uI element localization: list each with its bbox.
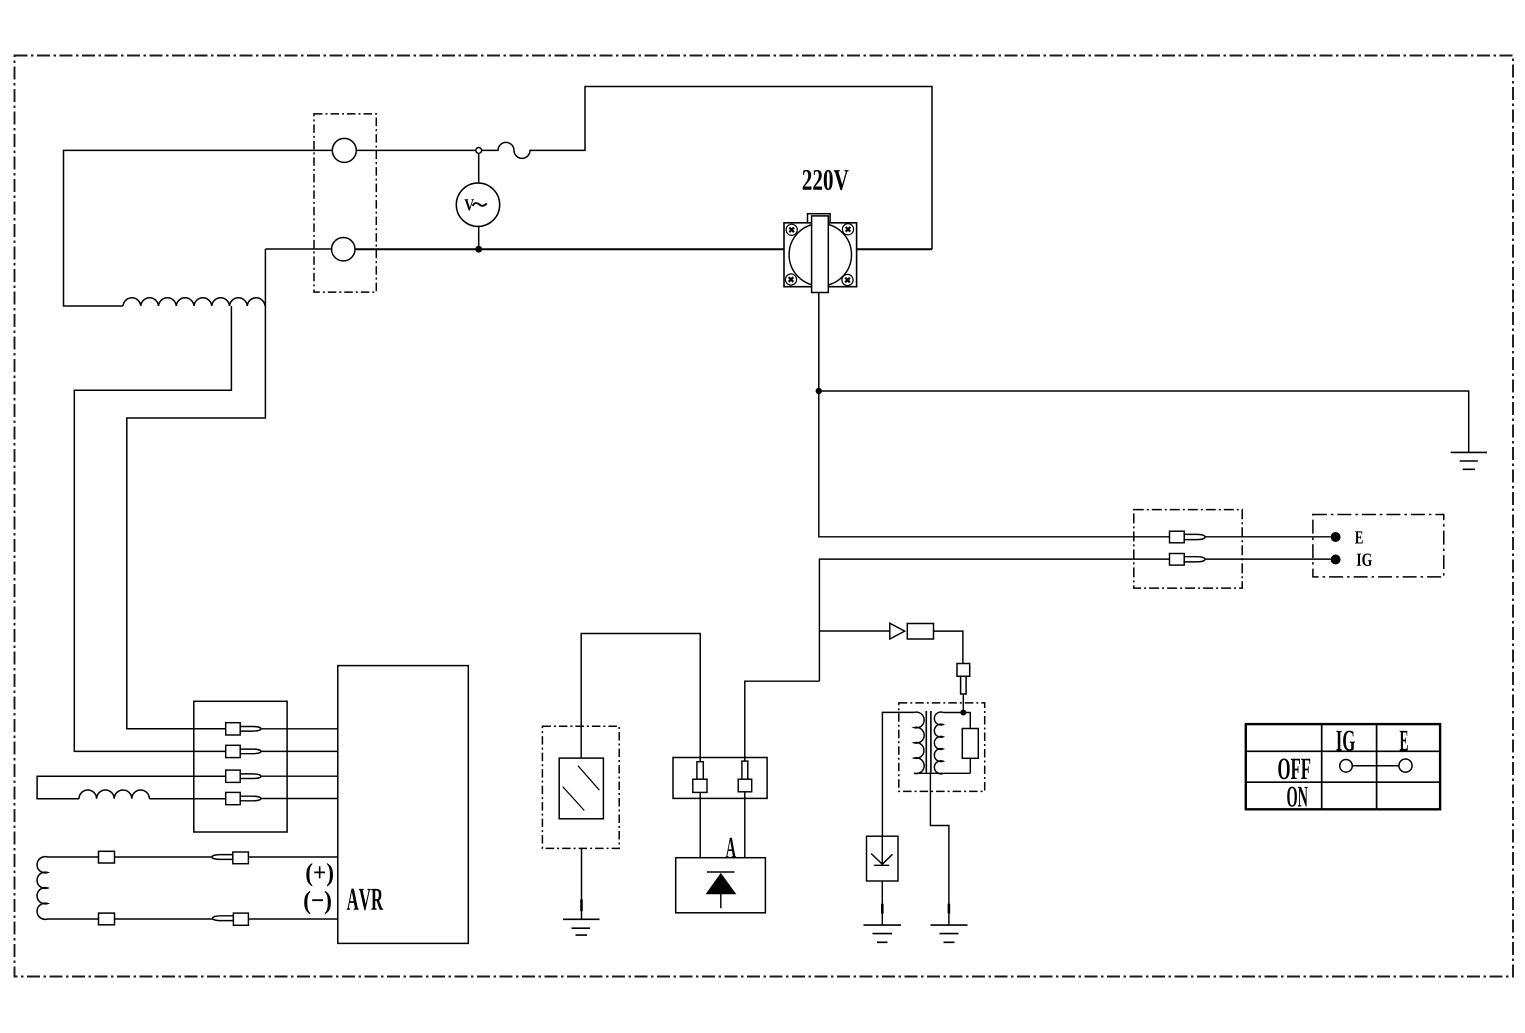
wire: sense winding to CN2 row 4 [149,798,225,800]
wire: output terminal 1 to breaker node [356,149,476,151]
terminal IG (dot) [1331,555,1341,565]
CN1 pin on E wire [1170,531,1206,543]
wire: stator right end up to output terminal 2 and down to connector CN2 pin 1 [127,249,332,729]
inline plug on (+) wire [212,852,248,864]
wire: R2 to coil bottom bus [969,758,971,773]
resistor R2 [962,729,978,759]
ignition coil primary winding [914,712,924,774]
wire: CN3 pin 1 to CDI unit [699,792,701,857]
label 220V [803,170,849,190]
wire: receptacle ground pin down to ground node [818,293,820,392]
wire overdraw segment (dark) [881,904,884,914]
wire: spark plug to ground [881,881,883,925]
label V~ [464,199,473,210]
receptacle 220V: socket circle [789,224,851,286]
table label ON [1287,787,1308,807]
receptacle screw bottom-right [842,274,853,285]
wire: stator tap down to connector CN2 pin 2 [74,306,231,751]
wire: regulator module up-over to CN3 pin 1 [581,634,700,762]
engine switch table [1246,724,1440,809]
receptacle screw top-left [786,224,797,235]
wire: IG branch to CDI connector pin 2 [745,681,820,761]
wire: coil bottom to ground [930,773,949,925]
wire: E line from ground node to terminal E [819,391,1331,537]
CN3 pin 1 [693,762,707,793]
output terminal 2 [332,238,355,261]
ground: spark plug [864,925,902,942]
connector CN3 (CDI connector) [673,758,767,799]
wire overdraw segment (dark) [948,904,951,914]
junction: ignition coil HT node [960,710,966,716]
wire: voltmeter branch [478,153,480,249]
wire: IG branch to ignition noise suppressor [819,630,889,632]
junction: ground node [816,388,822,394]
inline connector square on (+) wire [99,851,115,863]
CDI unit box [676,858,766,913]
CDI diode symbol (cathode bar, triangle, lead) [707,872,735,908]
CN3 pin 2 [738,761,752,792]
regulator module symbol (rect with diagonals) [559,758,603,819]
label (+) [306,863,333,887]
field winding L3 [37,857,47,920]
inline plug on (-) wire [213,913,249,925]
wire: ground node to frame ground [819,391,1469,452]
inline connector square on (-) wire [99,913,115,925]
table header label E [1400,731,1408,751]
CN2 pin 1 [226,723,261,735]
table header label IG [1336,731,1354,751]
receptacle 220V: top tab [808,214,831,223]
CN2 pin 3 [226,770,261,782]
ignition coil core [926,711,931,773]
wire: coil bottom bus [914,772,970,774]
connector CN2 (4-way) [194,701,287,832]
wire: CN3 pin 2 to CDI unit [744,792,746,858]
label AVR [347,889,383,911]
wire: field winding (-) to AVR [48,918,338,920]
engine switch terminal box (dash-dot) [1313,515,1444,577]
wire overdraw segment (dark) [580,900,583,912]
receptacle screw bottom-left [785,274,796,285]
wire: CN2 row 3 to sense winding loop [37,776,226,799]
wire: regulator module to ground [581,848,583,919]
label IG [1357,553,1372,565]
resistor R1 (noise suppressor) [907,624,933,640]
wire: CN2 rows to AVR [255,729,338,799]
receptacle 220V: mounting plate [784,223,857,287]
wire: cap to ignition coil HT node [962,694,964,713]
ground: ignition coil [931,925,968,942]
CN1 pin on IG wire [1170,554,1206,566]
ground: regulator module [563,919,600,935]
switch OFF contact symbol [1340,759,1412,772]
terminal E (dot) [1331,532,1341,542]
wire: breaker to top run to receptacle hot side [481,87,932,250]
connector CN1 (harness connector, dash-dot box) [1134,510,1242,588]
sense winding L2 [79,790,149,799]
output terminal 1 [332,138,356,162]
table label OFF [1278,758,1310,779]
receptacle 220V: center bar [812,216,829,293]
AVR unit [338,666,469,944]
label E [1355,531,1363,543]
terminal block (dash-dot box) [314,114,376,292]
ground: frame [1451,452,1487,469]
receptacle screw top-right [842,224,853,235]
regulator module outer box (dash-dot) [542,726,619,848]
wire: output terminal 1 to stator winding left [64,150,333,306]
main stator winding L1 [123,298,265,306]
label (-) [304,891,331,915]
wire: secondary top to resistor R2 [943,713,970,729]
CN2 pin 4 [226,792,261,804]
wire: field winding (+) to AVR [48,856,338,858]
voltmeter V [456,183,499,226]
wire: IG line from terminal IG to ignition branch [819,559,1330,681]
wire: R1 to spark plug cap [934,631,963,663]
ignition coil secondary winding [934,712,943,774]
label A [726,838,736,858]
wire: primary winding to spark plug [882,712,914,836]
wire: neutral bus from output terminal 2 to receptacle and right vertical [355,248,932,250]
junction: voltmeter tap on neutral bus [475,246,482,253]
spark plug cap (two-part) [957,664,970,695]
ignition coil box (dash-dot) [899,703,985,792]
node: breaker input terminal (open circle) [476,148,482,154]
CN2 pin 2 [226,745,261,757]
diode D1 (in IG feed) [890,623,905,639]
spark plug [867,836,899,881]
